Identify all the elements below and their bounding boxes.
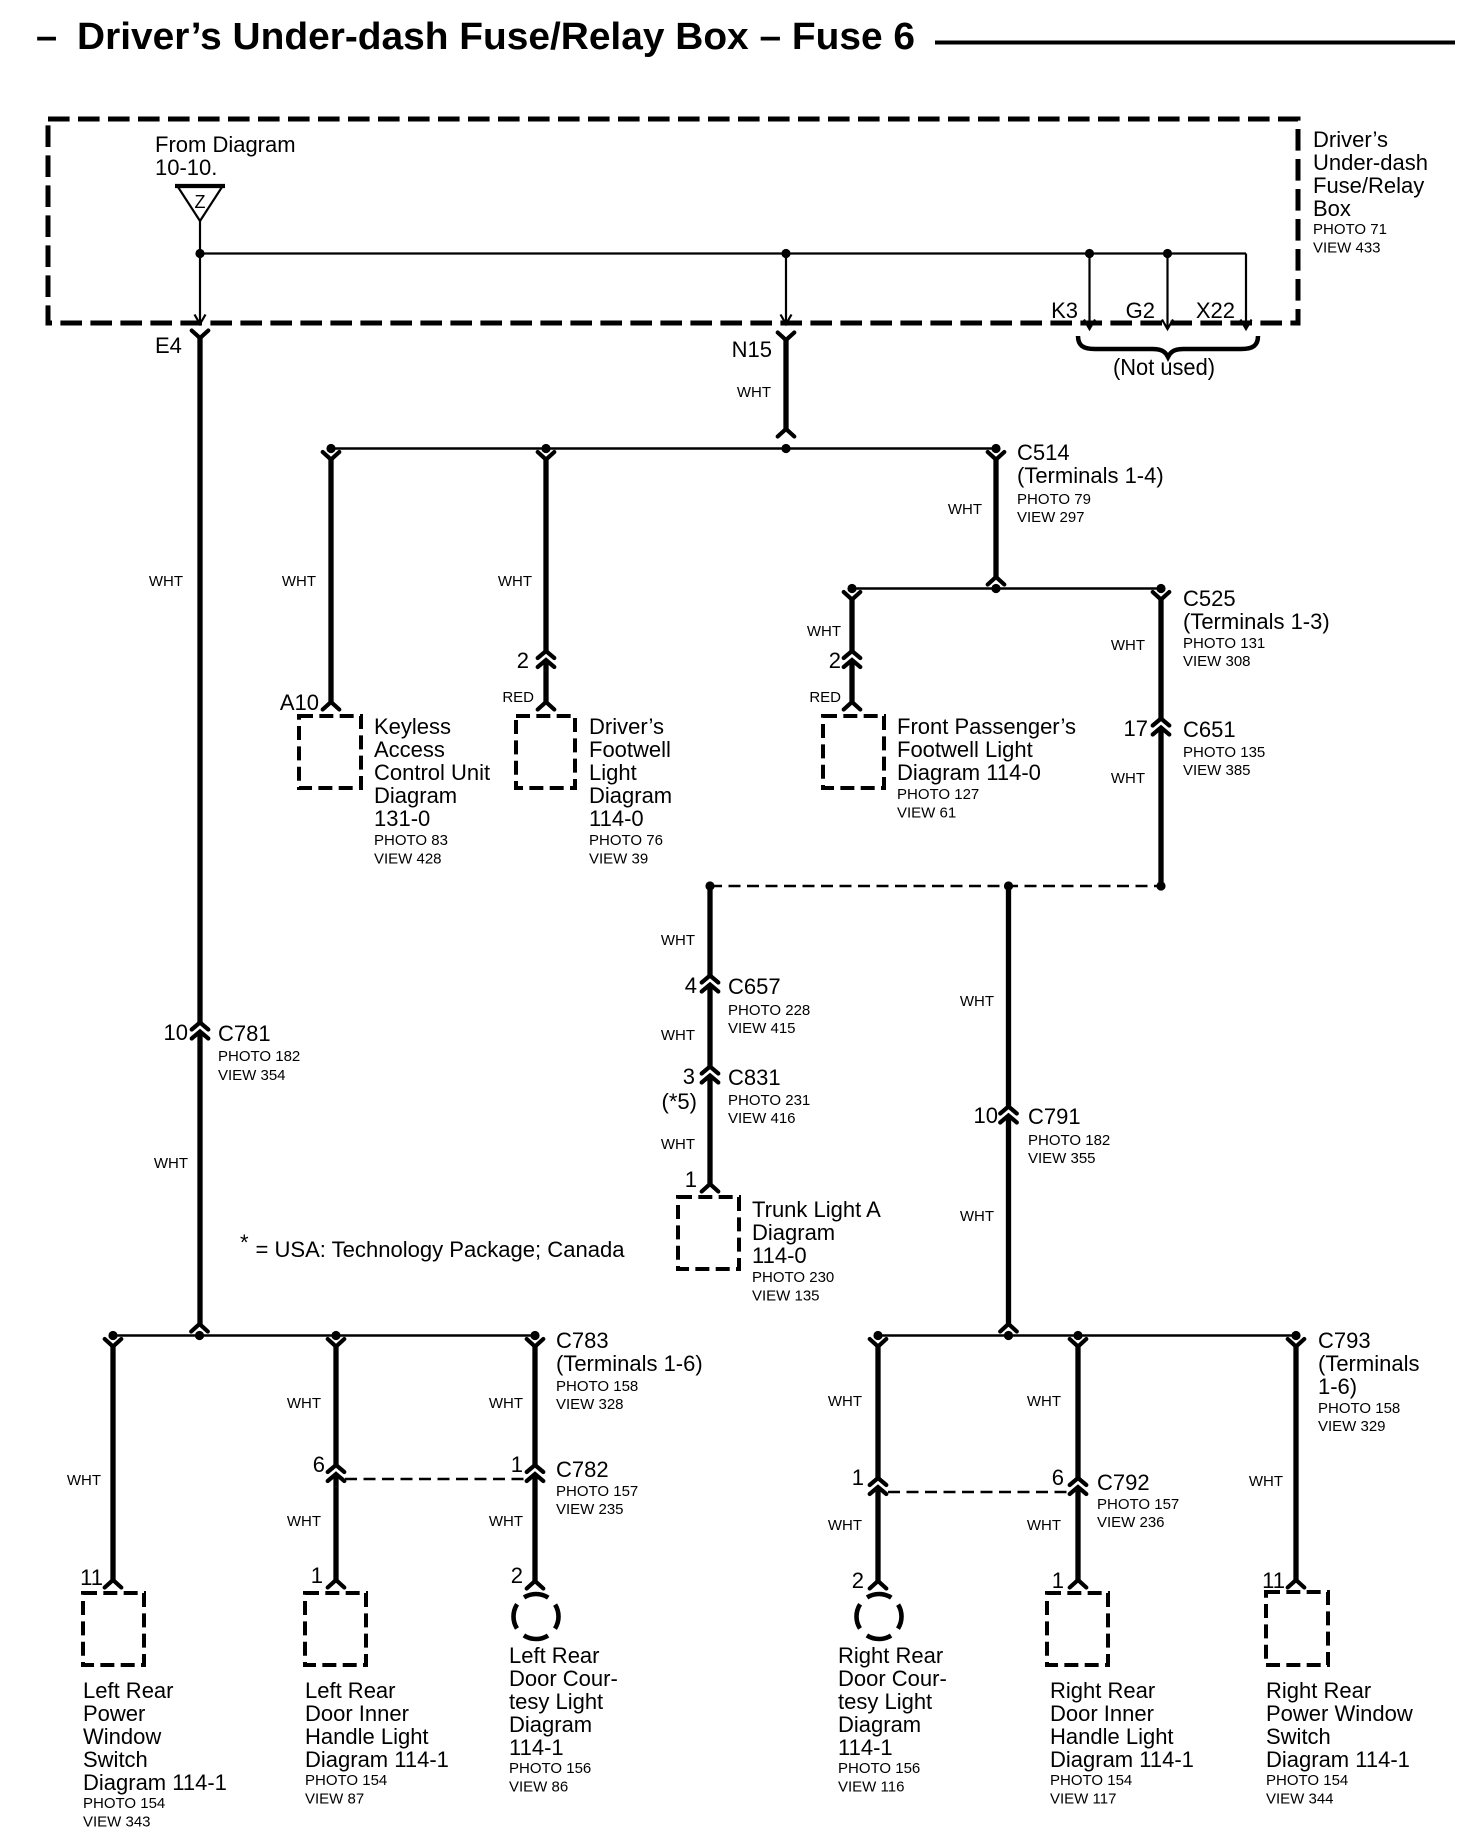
svg-text:Keyless: Keyless [374,714,451,739]
svg-text:11: 11 [80,1565,103,1590]
svg-text:Diagram: Diagram [509,1712,592,1737]
svg-text:(Not used): (Not used) [1113,354,1215,380]
wire: internal bus [200,252,1246,254]
svg-text:Handle Light: Handle Light [1050,1724,1174,1749]
svg-text:Driver’s: Driver’s [1313,127,1388,152]
svg-text:tesy Light: tesy Light [509,1689,603,1714]
svg-text:10-10.: 10-10. [155,155,217,180]
svg-text:3: 3 [683,1064,695,1089]
connector half E4 [192,331,209,339]
svg-text:VIEW 235: VIEW 235 [556,1501,624,1518]
wire WHT: to right rear power window switch [1293,1345,1298,1580]
svg-text:C514: C514 [1017,440,1070,465]
svg-text:WHT: WHT [149,573,183,590]
svg-text:2: 2 [511,1563,523,1588]
connector half N15 [778,333,795,341]
wire WHT: to C-driver footwell [543,458,548,652]
node: bus2 passenger branch [847,584,856,593]
svg-text:WHT: WHT [828,1517,862,1534]
connector half into keyless access control unit [323,702,340,710]
node: dashed bus trunk branch [705,881,714,890]
svg-text:VIEW 39: VIEW 39 [589,851,648,868]
node: bus1 footwell branch [541,444,550,453]
wire: Z to internal bus [199,221,201,254]
svg-text:114-0: 114-0 [589,806,644,831]
svg-text:PHOTO 157: PHOTO 157 [1097,1496,1179,1513]
node: BL bus mid branch [331,1331,340,1340]
svg-text:PHOTO 157: PHOTO 157 [556,1483,638,1500]
connector Z (from diagram 10-10) [177,186,223,222]
svg-text:(Terminals 1-3): (Terminals 1-3) [1183,609,1330,634]
wire WHT: to passenger connector [849,598,854,652]
svg-text:Handle Light: Handle Light [305,1724,429,1749]
svg-text:Footwell Light: Footwell Light [897,737,1033,762]
connector pin 2 (passenger footwell) [844,651,861,658]
wire WHT: to C792 pin 1 [875,1345,880,1479]
wire: drop to G2 [1166,254,1168,328]
trunk light A (dashed box) [678,1197,739,1269]
svg-text:1: 1 [685,1167,697,1192]
svg-text:Fuse/Relay: Fuse/Relay [1313,173,1424,198]
svg-text:*: * [240,1230,249,1255]
svg-text:= USA: Technology Package; Can: = USA: Technology Package; Canada [256,1237,626,1262]
svg-text:2: 2 [517,648,529,673]
svg-text:WHT: WHT [661,1027,695,1044]
wire: drop to X22 [1245,254,1247,328]
connector half into right bus [1000,1324,1017,1332]
wire WHT: C792 to courtesy light [875,1488,880,1582]
svg-text:11: 11 [1262,1568,1285,1593]
connector half below bus1 (driver footwell) [538,452,555,460]
connector half into bus2 [988,577,1005,585]
connector half below BL bus (door inner handle) [328,1339,345,1347]
svg-text:VIEW 297: VIEW 297 [1017,509,1085,526]
fuse/relay box (dashed outline) [48,119,1298,323]
right rear door inner handle light (dashed box) [1047,1593,1108,1665]
svg-text:PHOTO 135: PHOTO 135 [1183,744,1265,761]
wire: drop to K3 [1088,254,1090,328]
svg-text:6: 6 [1052,1465,1064,1490]
svg-text:VIEW 116: VIEW 116 [838,1779,904,1796]
svg-text:114-0: 114-0 [752,1243,807,1268]
svg-text:Diagram 114-1: Diagram 114-1 [1050,1747,1194,1772]
svg-text:RED: RED [809,689,841,706]
svg-text:6: 6 [313,1452,325,1477]
svg-text:PHOTO 156: PHOTO 156 [838,1760,920,1777]
svg-text:E4: E4 [155,333,182,358]
node: K3 tap [1085,249,1094,258]
svg-text:17: 17 [1124,716,1148,741]
connector half below BR bus (courtesy light) [870,1339,887,1347]
svg-text:10: 10 [974,1103,998,1128]
svg-text:VIEW 236: VIEW 236 [1097,1514,1165,1531]
wire: dashed bus [710,885,1161,887]
connector half below BL bus (courtesy light) [527,1339,544,1347]
node: left bus / E4 [195,1331,204,1340]
svg-text:WHT: WHT [661,1136,695,1153]
node: dashed bus right end [1156,881,1165,890]
svg-text:VIEW 343: VIEW 343 [83,1814,151,1831]
wire RED: to passenger footwell light [849,661,854,704]
svg-text:114-1: 114-1 [509,1735,564,1760]
svg-text:Front Passenger’s: Front Passenger’s [897,714,1076,739]
svg-text:WHT: WHT [960,1208,994,1225]
wire RED: to driver footwell light [543,661,548,704]
svg-text:131-0: 131-0 [374,806,430,831]
node: BR bus left branch [873,1331,882,1340]
connector half below bus2 (passenger footwell) [844,592,861,600]
svg-text:2: 2 [829,648,841,673]
svg-text:Diagram 114-1: Diagram 114-1 [83,1770,227,1795]
connector C792 pin 6 [1070,1478,1087,1485]
svg-text:1: 1 [1052,1568,1064,1593]
wire WHT: to A10 [328,458,333,703]
node: bus2 C525 branch [1156,584,1165,593]
svg-text:Under-dash: Under-dash [1313,150,1428,175]
svg-text:WHT: WHT [287,1513,321,1530]
svg-text:C831: C831 [728,1065,781,1090]
svg-text:WHT: WHT [498,573,532,590]
svg-text:PHOTO 182: PHOTO 182 [218,1048,300,1065]
right rear power window switch (dashed box) [1266,1592,1328,1665]
svg-text:VIEW 385: VIEW 385 [1183,762,1251,779]
connector half into left bus [191,1324,208,1332]
svg-text:Driver’s Under-dash Fuse/Relay: Driver’s Under-dash Fuse/Relay Box – Fus… [77,16,915,58]
wire WHT: C525 to C651 [1158,598,1163,720]
wire: bottom left bus [113,1334,535,1336]
svg-text:PHOTO 131: PHOTO 131 [1183,635,1265,652]
svg-text:WHT: WHT [287,1395,321,1412]
svg-text:WHT: WHT [948,501,982,518]
svg-text:C651: C651 [1183,717,1236,742]
brace (not used) [1078,336,1258,357]
svg-text:Footwell: Footwell [589,737,671,762]
svg-text:VIEW 416: VIEW 416 [728,1110,796,1127]
svg-text:VIEW 328: VIEW 328 [556,1396,624,1413]
connector C782 pin 6 [328,1465,345,1472]
node: G2 tap [1163,249,1172,258]
wire WHT: C514 to bus2 [993,458,998,578]
svg-text:Diagram 114-1: Diagram 114-1 [305,1747,449,1772]
node: right bus / C791 [1004,1331,1013,1340]
svg-text:(Terminals 1-4): (Terminals 1-4) [1017,463,1164,488]
svg-text:Diagram: Diagram [374,783,457,808]
svg-text:10: 10 [164,1020,188,1045]
wire WHT: to C657 [707,886,712,977]
connector pin 2 (driver footwell) [538,651,555,658]
wire WHT: C651 to dashed bus [1158,728,1163,886]
svg-text:Switch: Switch [83,1747,148,1772]
front passenger's footwell light (dashed box) [823,716,884,788]
svg-text:2: 2 [852,1568,864,1593]
left rear power window switch (dashed box) [83,1593,144,1665]
svg-text:C791: C791 [1028,1104,1081,1129]
svg-text:G2: G2 [1126,298,1155,323]
wire WHT: C782 to handle light [333,1475,338,1581]
wire WHT: E4 down [197,336,202,1024]
svg-text:Diagram: Diagram [838,1712,921,1737]
wire: dashed link C792 [888,1491,1068,1493]
wire WHT: to C782 pin 6 [333,1345,338,1466]
connector C651 pin 17 [1153,719,1170,726]
wire WHT: C792 to handle light [1075,1488,1080,1581]
wire WHT: N15 down [783,338,788,430]
svg-text:VIEW 308: VIEW 308 [1183,653,1251,670]
node: N15 tap [781,249,790,258]
svg-text:Trunk Light A: Trunk Light A [752,1197,881,1222]
svg-text:Access: Access [374,737,445,762]
left rear door courtesy light (dashed circle) [514,1594,559,1639]
svg-text:1: 1 [511,1452,523,1477]
svg-text:1-6): 1-6) [1318,1374,1357,1399]
svg-text:VIEW 86: VIEW 86 [509,1779,568,1796]
svg-text:WHT: WHT [737,384,771,401]
connector C831 pin 3 [702,1067,719,1074]
connector half below bus1 (A10 branch) [323,452,340,460]
wire: dashed link C782 [345,1478,526,1480]
connector C782 pin 1 [527,1465,544,1472]
svg-text:Driver’s: Driver’s [589,714,664,739]
svg-text:PHOTO 156: PHOTO 156 [509,1760,591,1777]
wire: drop to E4 [199,254,201,323]
svg-text:RED: RED [502,689,534,706]
node: internal bus at Z [195,249,204,258]
svg-text:PHOTO 158: PHOTO 158 [1318,1400,1400,1417]
svg-text:Door Inner: Door Inner [305,1701,409,1726]
svg-text:Door Inner: Door Inner [1050,1701,1154,1726]
svg-text:Left Rear: Left Rear [509,1643,600,1668]
svg-text:WHT: WHT [489,1395,523,1412]
svg-text:1: 1 [311,1563,323,1588]
svg-text:C781: C781 [218,1021,271,1046]
svg-text:PHOTO 154: PHOTO 154 [1266,1772,1348,1789]
svg-text:(*5): (*5) [662,1089,697,1114]
svg-text:PHOTO 127: PHOTO 127 [897,786,979,803]
connector half below BR bus (door inner handle) [1070,1339,1087,1347]
svg-text:VIEW 117: VIEW 117 [1050,1791,1116,1808]
svg-text:WHT: WHT [67,1472,101,1489]
svg-text:PHOTO 231: PHOTO 231 [728,1092,810,1109]
node: BR bus mid branch [1073,1331,1082,1340]
connector half below BR bus (power window switch) [1288,1339,1305,1347]
connector half below bus2 (C525) [1153,592,1170,600]
title rule [935,41,1455,45]
svg-text:PHOTO 154: PHOTO 154 [1050,1772,1132,1789]
wire WHT: C791 to right bus [1006,1116,1011,1326]
svg-text:Switch: Switch [1266,1724,1331,1749]
node: BL bus left end [108,1331,117,1340]
wire WHT: to C792 pin 6 [1075,1345,1080,1479]
svg-text:WHT: WHT [1249,1473,1283,1490]
svg-text:WHT: WHT [282,573,316,590]
wire: bottom right bus [878,1334,1296,1336]
svg-text:PHOTO 71: PHOTO 71 [1313,221,1387,238]
node: dashed bus C791 branch [1004,881,1013,890]
svg-text:WHT: WHT [1111,637,1145,654]
node: bus2 / C514 [991,584,1000,593]
node: bus1 A10 branch [326,444,335,453]
svg-text:VIEW 428: VIEW 428 [374,851,442,868]
svg-text:Right Rear: Right Rear [1050,1678,1155,1703]
svg-text:N15: N15 [732,337,772,362]
keyless access control unit (dashed box) [299,716,361,788]
svg-text:Diagram 114-0: Diagram 114-0 [897,760,1041,785]
svg-text:Z: Z [195,192,206,212]
wire WHT: C782 to courtesy light [532,1475,537,1582]
svg-text:A10: A10 [280,690,319,715]
svg-text:PHOTO 230: PHOTO 230 [752,1269,834,1286]
driver's footwell light (dashed box) [516,716,575,788]
node: bus1 C514 branch [991,444,1000,453]
svg-text:WHT: WHT [489,1513,523,1530]
svg-text:Left Rear: Left Rear [83,1678,174,1703]
svg-text:WHT: WHT [1027,1393,1061,1410]
svg-text:WHT: WHT [1027,1517,1061,1534]
wire: bus 1 [331,447,996,449]
svg-text:Power Window: Power Window [1266,1701,1413,1726]
svg-text:VIEW 135: VIEW 135 [752,1288,820,1305]
svg-text:PHOTO 154: PHOTO 154 [305,1772,387,1789]
svg-text:(Terminals: (Terminals [1318,1351,1419,1376]
connector C657 pin 4 [702,976,719,983]
svg-text:C792: C792 [1097,1470,1150,1495]
node: BR bus right end [1291,1331,1300,1340]
svg-text:C782: C782 [556,1457,609,1482]
svg-text:–: – [36,16,57,58]
svg-text:WHT: WHT [960,993,994,1010]
svg-text:Diagram: Diagram [752,1220,835,1245]
svg-text:Door Cour-: Door Cour- [838,1666,947,1691]
svg-text:VIEW 344: VIEW 344 [1266,1791,1334,1808]
wire WHT: C831 to trunk light [707,1076,712,1184]
svg-text:114-1: 114-1 [838,1735,893,1760]
svg-text:Diagram 114-1: Diagram 114-1 [1266,1747,1410,1772]
connector C781 pin 10 [192,1023,209,1030]
svg-text:1: 1 [852,1465,864,1490]
svg-text:Control Unit: Control Unit [374,760,490,785]
svg-text:C783: C783 [556,1328,609,1353]
connector half below bus1 (C514) [988,452,1005,460]
svg-text:PHOTO 182: PHOTO 182 [1028,1132,1110,1149]
wire WHT: C657 to C831 [707,985,712,1068]
wire: bus 2 [852,587,1161,589]
svg-text:VIEW 329: VIEW 329 [1318,1418,1386,1435]
svg-text:Box: Box [1313,196,1351,221]
svg-text:C657: C657 [728,974,781,999]
svg-text:From Diagram: From Diagram [155,132,296,157]
wire: drop to N15 [785,254,787,323]
svg-text:Light: Light [589,760,637,785]
wire WHT: to C782 pin 1 [532,1345,537,1466]
svg-text:VIEW 61: VIEW 61 [897,805,956,822]
svg-text:Door Cour-: Door Cour- [509,1666,618,1691]
svg-text:C525: C525 [1183,586,1236,611]
connector half into bus 1 [778,429,795,437]
svg-text:VIEW 87: VIEW 87 [305,1791,364,1808]
svg-text:PHOTO 76: PHOTO 76 [589,832,663,849]
svg-text:4: 4 [685,973,697,998]
svg-text:Power: Power [83,1701,145,1726]
node: bus1 / N15 [781,444,790,453]
svg-text:VIEW 355: VIEW 355 [1028,1150,1096,1167]
svg-text:X22: X22 [1196,298,1235,323]
svg-text:Right Rear: Right Rear [838,1643,943,1668]
right rear door courtesy light (dashed circle) [857,1594,902,1639]
svg-text:Diagram: Diagram [589,783,672,808]
svg-text:(Terminals 1-6): (Terminals 1-6) [556,1351,703,1376]
svg-text:VIEW 415: VIEW 415 [728,1020,796,1037]
left rear door inner handle light (dashed box) [305,1593,366,1665]
svg-text:WHT: WHT [807,623,841,640]
wire WHT: C781 to left bus [197,1032,202,1326]
svg-text:K3: K3 [1051,298,1078,323]
svg-text:PHOTO 83: PHOTO 83 [374,832,448,849]
svg-text:VIEW 433: VIEW 433 [1313,240,1381,257]
connector half below BL bus (power window switch) [105,1339,122,1347]
connector C792 pin 1 [870,1478,887,1485]
svg-text:Window: Window [83,1724,161,1749]
connector half into driver footwell light [538,702,555,710]
svg-text:tesy Light: tesy Light [838,1689,932,1714]
svg-text:WHT: WHT [661,932,695,949]
svg-text:PHOTO 158: PHOTO 158 [556,1378,638,1395]
svg-text:PHOTO 154: PHOTO 154 [83,1795,165,1812]
wire WHT: to C791 [1006,886,1011,1108]
node: BL bus right branch [530,1331,539,1340]
svg-text:WHT: WHT [154,1155,188,1172]
svg-text:VIEW 354: VIEW 354 [218,1067,286,1084]
svg-text:Right Rear: Right Rear [1266,1678,1371,1703]
svg-text:C793: C793 [1318,1328,1371,1353]
wire WHT: to left rear power window switch [110,1345,115,1580]
svg-text:Left Rear: Left Rear [305,1678,396,1703]
connector half into passenger footwell light [844,702,861,710]
connector C791 pin 10 [1000,1107,1017,1114]
svg-text:WHT: WHT [1111,770,1145,787]
svg-text:WHT: WHT [828,1393,862,1410]
svg-text:PHOTO 79: PHOTO 79 [1017,491,1091,508]
svg-text:PHOTO 228: PHOTO 228 [728,1002,810,1019]
